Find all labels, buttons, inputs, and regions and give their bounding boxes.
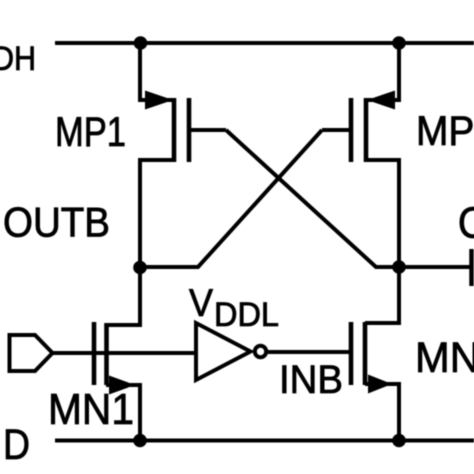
- input port IN: [10, 335, 53, 371]
- wire MN1 source to ground rail: [106, 385, 140, 440]
- wire MN2 source to ground rail: [365, 384, 399, 441]
- svg-text:MN2: MN2: [415, 334, 474, 382]
- svg-text:INB: INB: [279, 358, 343, 402]
- wire MP2 drain to OUT: [366, 160, 399, 267]
- svg-text:DDL: DDL: [214, 296, 279, 334]
- wire cross-couple MP1 gate to OUT node: [226, 130, 399, 267]
- svg-text:V: V: [189, 282, 213, 325]
- node VDDH-MP1 junction dot: [134, 36, 148, 50]
- wire MP1 drain to OUTB: [140, 160, 174, 268]
- svg-text:MP2: MP2: [416, 107, 474, 154]
- svg-text:OUTB: OUTB: [3, 199, 110, 246]
- wire OUTB node down to MN1 drain: [106, 268, 140, 325]
- svg-text:MN1: MN1: [48, 385, 134, 434]
- wire inverter output to MN2 gate: [268, 350, 351, 354]
- inverter U1 bubble: [255, 346, 266, 357]
- wire VDDH top rail: [55, 41, 474, 45]
- wire input to inverter through MN1 gate: [52, 351, 195, 355]
- wire OUT node to output port: [399, 265, 470, 269]
- wire OUT node down to MN2 drain: [365, 267, 399, 323]
- node OUT junction dot: [392, 260, 406, 274]
- transistor MN2: [351, 322, 392, 394]
- wire ground bottom rail: [55, 439, 474, 443]
- svg-text:DH: DH: [0, 40, 36, 78]
- inverter U1 triangle: [196, 323, 251, 380]
- node GND-MN1 junction dot: [133, 434, 147, 448]
- transistor MP1: [145, 91, 189, 163]
- node VDDH-MP2 junction dot: [392, 36, 406, 50]
- output port (clipped at right edge): [469, 249, 474, 286]
- node GND-MN2 junction dot: [392, 434, 406, 448]
- svg-text:D: D: [3, 421, 30, 469]
- wire MP1 gate stub: [190, 128, 226, 132]
- transistor MN1: [94, 322, 135, 395]
- svg-text:OUT: OUT: [458, 199, 474, 248]
- svg-text:MP1: MP1: [55, 108, 126, 155]
- wire cross-couple MP2 gate to OUTB node: [140, 130, 322, 267]
- wire MP1 source from rail: [140, 43, 172, 100]
- wire MP2 source from rail: [368, 43, 399, 100]
- wire MP2 gate stub: [322, 128, 350, 132]
- transistor MP2: [351, 91, 395, 163]
- node OUTB junction dot: [133, 261, 147, 275]
